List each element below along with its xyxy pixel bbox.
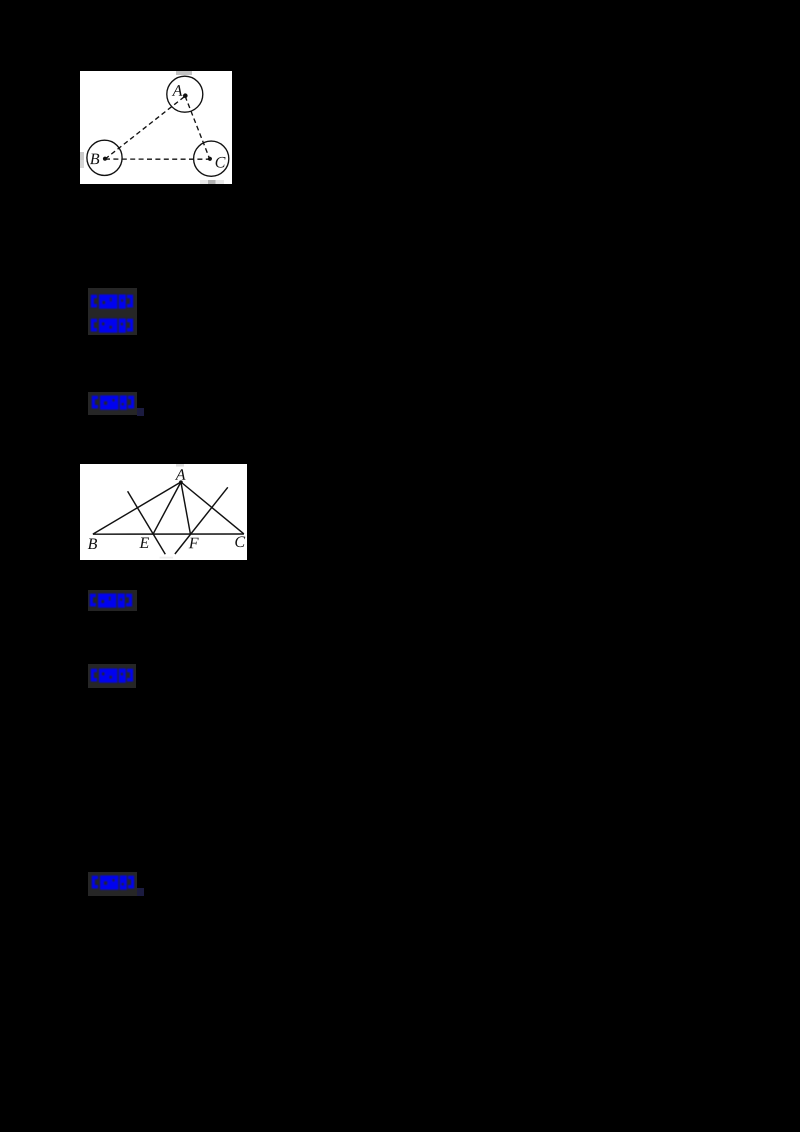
gray tab top of figure 2	[176, 464, 184, 467]
gray tab top of figure 1	[176, 71, 192, 75]
wire: dashed line B-C	[105, 158, 210, 160]
label B	[90, 154, 99, 165]
blue block 5 background box	[88, 664, 137, 688]
wire: side AB	[93, 482, 181, 534]
gray bar left edge of figure 1	[80, 152, 84, 160]
label A	[172, 85, 183, 96]
wire: base BC	[93, 533, 244, 535]
circle B	[87, 140, 122, 175]
figure 1: three circles A B C with dashed triangle	[80, 71, 232, 184]
blue block 4 background box	[88, 590, 138, 611]
blue link text 4	[89, 592, 135, 610]
label E	[139, 538, 149, 548]
node B center dot	[103, 157, 107, 161]
wire: dashed line A-C	[185, 96, 210, 159]
faint smudge below E line	[160, 557, 174, 559]
circle A	[167, 76, 203, 112]
wire: cevian AE	[153, 482, 181, 534]
gray band bottom of figure 1	[200, 180, 224, 184]
wire: cevian AF	[181, 482, 191, 534]
node A center dot	[183, 93, 188, 98]
blue block 6 background box	[88, 872, 137, 896]
blue link text 2	[90, 317, 136, 335]
wire: perpendicular bisector of AC through F	[175, 487, 228, 554]
node C center dot	[208, 157, 212, 161]
circle C	[194, 141, 229, 176]
wire: side AC	[181, 482, 244, 534]
navy square after block 3	[137, 408, 145, 416]
label C	[216, 157, 226, 168]
label F	[189, 538, 199, 548]
blue link text 3	[91, 394, 137, 412]
label A	[175, 469, 186, 480]
label B	[88, 539, 97, 550]
wire: perpendicular bisector of AB through E	[128, 491, 166, 554]
figure 2: triangle ABC with cevians and perpendicular bisectors	[80, 464, 247, 560]
wire: dashed line B-A	[105, 96, 185, 159]
blue link text 1	[90, 293, 136, 311]
label C	[235, 536, 245, 547]
blue block 3 background box	[88, 392, 137, 416]
node A junction dot	[179, 480, 183, 484]
blue link text 5	[90, 667, 136, 685]
blue link text 6	[91, 874, 137, 892]
navy square after block 6	[137, 888, 145, 896]
blue block 1+2 background box	[88, 288, 137, 335]
